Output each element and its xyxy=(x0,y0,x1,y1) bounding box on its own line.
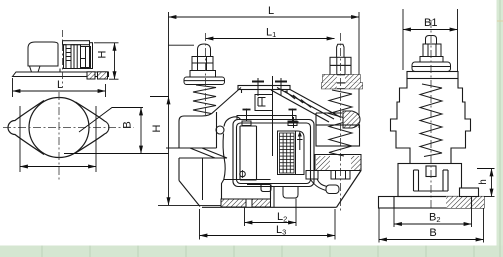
svg-text:H: H xyxy=(97,50,109,58)
coil top bolt xyxy=(289,117,299,128)
stack outline xyxy=(63,68,93,70)
bolt cap xyxy=(412,36,451,72)
left blocks xyxy=(166,112,227,207)
left ear xyxy=(8,101,44,155)
right box xyxy=(316,113,360,146)
foot under box xyxy=(30,66,41,72)
washer xyxy=(184,77,225,85)
small bracket xyxy=(255,95,273,111)
spring xyxy=(329,90,352,156)
dim B1 xyxy=(403,9,458,71)
svg-text:B: B xyxy=(122,121,134,128)
body top plate xyxy=(407,72,458,79)
dim H (view3) xyxy=(150,97,224,206)
top studs xyxy=(252,78,287,96)
lever arm xyxy=(222,117,272,199)
bolt nut xyxy=(192,57,213,71)
stack columns xyxy=(64,45,67,69)
bolt dome xyxy=(198,44,211,57)
stem xyxy=(337,44,344,57)
right bolt assembly xyxy=(322,44,363,156)
dim L xyxy=(169,12,360,128)
left bolt centerline xyxy=(205,33,207,115)
stack top bar xyxy=(63,41,90,45)
pin circle xyxy=(240,171,246,177)
box body xyxy=(28,42,58,66)
dim L2 xyxy=(245,199,297,227)
dim L (view1/2) xyxy=(13,78,106,97)
coil window white box xyxy=(81,47,91,68)
left bolt assembly xyxy=(184,44,225,114)
dim h xyxy=(477,169,495,197)
B ref bottom line xyxy=(64,153,169,155)
coil grid xyxy=(280,133,295,173)
magnet frame xyxy=(233,120,314,187)
hatched feet xyxy=(87,72,108,79)
collar xyxy=(190,71,216,78)
svg-text:L: L xyxy=(57,79,63,91)
pole shoe tab xyxy=(261,185,271,192)
svg-text:h: h xyxy=(478,179,489,185)
slope band xyxy=(271,90,329,122)
right bolt centerline xyxy=(340,33,342,212)
centerline xyxy=(62,30,64,87)
spring (view4) xyxy=(420,84,442,157)
dim L1 xyxy=(169,39,335,46)
small dagger mark in strip xyxy=(297,133,303,151)
center lines xyxy=(3,127,134,129)
body outline left xyxy=(179,86,341,149)
lever pivot circle xyxy=(216,126,224,134)
green table strip bottom xyxy=(0,246,503,257)
right plate xyxy=(306,155,361,180)
spring xyxy=(193,85,216,114)
armature bar xyxy=(237,109,297,126)
dim H (view1) xyxy=(94,43,119,79)
body profile xyxy=(391,79,471,197)
wheel circle xyxy=(29,98,89,158)
base hatched feet xyxy=(221,199,271,207)
dim L3 xyxy=(200,209,336,240)
bottom dim (no label) xyxy=(20,106,96,172)
right ear xyxy=(76,102,109,153)
coil window xyxy=(278,131,305,175)
dim B (view4) xyxy=(379,208,484,243)
green table strip right xyxy=(497,0,503,246)
leader line to B xyxy=(79,108,143,133)
nut xyxy=(330,57,351,65)
bolt centerline (view4) xyxy=(430,20,432,208)
svg-text:H: H xyxy=(151,124,163,132)
washer hatched xyxy=(323,75,360,83)
base plate (view4) xyxy=(379,188,485,208)
svg-text:B: B xyxy=(429,227,436,239)
top bar xyxy=(238,86,290,90)
right shoe xyxy=(310,179,339,194)
pole block xyxy=(274,187,298,208)
svg-text:L: L xyxy=(268,5,274,17)
right lug hatched xyxy=(343,111,360,128)
dim B2 xyxy=(394,208,472,227)
base xyxy=(202,171,361,208)
center section line xyxy=(272,76,274,156)
base plate xyxy=(13,72,109,77)
dim B (view2) xyxy=(140,108,142,154)
